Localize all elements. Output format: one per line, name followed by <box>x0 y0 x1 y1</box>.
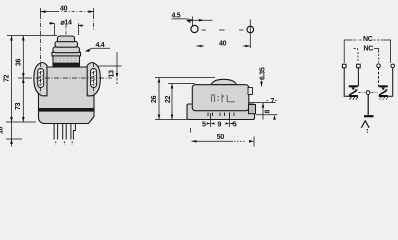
svg-text:NC: NC <box>364 46 374 53</box>
label recess marks <box>212 95 215 102</box>
wire T2 down <box>357 68 359 87</box>
svg-text:5: 5 <box>202 122 206 129</box>
svg-text:9: 9 <box>218 122 222 129</box>
dimension 36 line <box>15 36 28 79</box>
plunger stem <box>367 95 369 116</box>
dimension 40 (hole spacing) <box>197 41 251 48</box>
side body <box>192 85 249 111</box>
side terminal tab <box>248 88 253 95</box>
svg-text:13: 13 <box>109 70 116 78</box>
bellows tier 2 <box>55 41 78 47</box>
wire T1 down <box>344 68 349 97</box>
small dim arrows at hole top <box>187 17 213 26</box>
dimension dia 14 (plunger) <box>49 20 84 36</box>
dimension 50 (overall width) <box>191 128 255 147</box>
left contact fixed bars <box>349 85 358 87</box>
svg-text:4.5: 4.5 <box>172 13 181 20</box>
centerline right ear slot <box>93 63 95 93</box>
left contact tip <box>351 88 355 91</box>
right contact fixed bars <box>379 85 388 87</box>
neck block <box>53 56 80 68</box>
centerline left ear <box>40 15 42 93</box>
wire T4 down <box>388 68 393 97</box>
terminal T3 <box>377 64 381 68</box>
svg-text:NC: NC <box>363 36 373 43</box>
right contact mover <box>379 91 386 95</box>
link dashes and pivot <box>359 92 365 94</box>
pivot circle <box>366 91 370 95</box>
dimension 40 (ear hole spacing, top) <box>41 6 94 16</box>
right hole centerline vertical <box>249 20 251 49</box>
dimension 73 line <box>15 78 25 122</box>
svg-text:40: 40 <box>219 41 227 48</box>
body front view <box>39 67 95 124</box>
right contact hatch (dashed) <box>380 97 388 100</box>
centerline right ear <box>93 15 95 30</box>
neck lip <box>52 52 81 56</box>
right contact tip <box>381 88 385 91</box>
terminal T2 <box>357 64 361 68</box>
mounting hole right <box>247 26 254 33</box>
svg-text:26: 26 <box>151 95 158 103</box>
terminal 1 front <box>54 124 58 140</box>
svg-text:73: 73 <box>15 102 22 110</box>
plunger centerline <box>65 25 67 35</box>
ear centerline horizontal <box>27 77 112 79</box>
dimension 6.35 (terminal) <box>260 67 267 86</box>
dimension 10 (bottom) <box>0 122 22 147</box>
terminal T1 <box>342 64 346 68</box>
svg-text:⌀14: ⌀14 <box>61 20 73 27</box>
plunger cap <box>58 36 75 42</box>
terminal 2 front <box>63 124 66 140</box>
dimension 22 <box>165 84 195 120</box>
svg-text:7: 7 <box>271 98 275 105</box>
mounting hole left <box>191 25 198 32</box>
left contact ground hatch <box>350 97 358 100</box>
terminal 3 front <box>71 124 76 140</box>
dimension 5 9 5 (terminal spacing) <box>202 113 237 129</box>
terminal T4 <box>391 64 395 68</box>
bellows tier 3 <box>53 47 80 53</box>
svg-text:8: 8 <box>265 110 272 114</box>
plunger bar <box>364 115 374 117</box>
seal band front <box>39 108 94 112</box>
top reference extension line (left) <box>7 35 57 37</box>
svg-text:10: 10 <box>0 126 5 134</box>
NC bracket outer <box>344 36 390 63</box>
left ear <box>34 63 47 96</box>
right step block <box>249 105 256 114</box>
left contact mover <box>349 91 356 95</box>
svg-text:72: 72 <box>4 74 11 82</box>
svg-text:50: 50 <box>217 134 225 141</box>
base plate <box>187 104 255 120</box>
hole centerline horizontal <box>202 29 244 31</box>
dome on top <box>211 79 237 84</box>
right ear <box>87 63 100 96</box>
dimension 72 line <box>4 36 13 123</box>
actuation arrow <box>361 121 369 128</box>
svg-text:36: 36 <box>15 58 22 66</box>
neck thread line <box>55 59 78 61</box>
left ear slot <box>38 69 44 88</box>
dimension 4.4 (leader to flange) <box>85 42 110 52</box>
wire T3 down (dashed) <box>378 68 380 87</box>
right ear slot <box>91 69 97 88</box>
dimension 26 (side view height) <box>151 78 215 120</box>
NC bracket inner <box>354 46 379 63</box>
terminal slots under plate <box>208 113 234 117</box>
neck seal ring (black band) <box>53 63 80 67</box>
dimension 4.5 leader <box>172 13 191 24</box>
dimension 7 and 8 (right step) <box>249 98 278 120</box>
bottom extension at plate <box>155 119 187 121</box>
extension line body bottom <box>6 121 36 123</box>
slot hatch marks <box>39 72 43 85</box>
svg-text:6.35: 6.35 <box>260 67 267 80</box>
svg-text:22: 22 <box>165 95 172 103</box>
dimension 13 (right side) <box>97 52 122 84</box>
